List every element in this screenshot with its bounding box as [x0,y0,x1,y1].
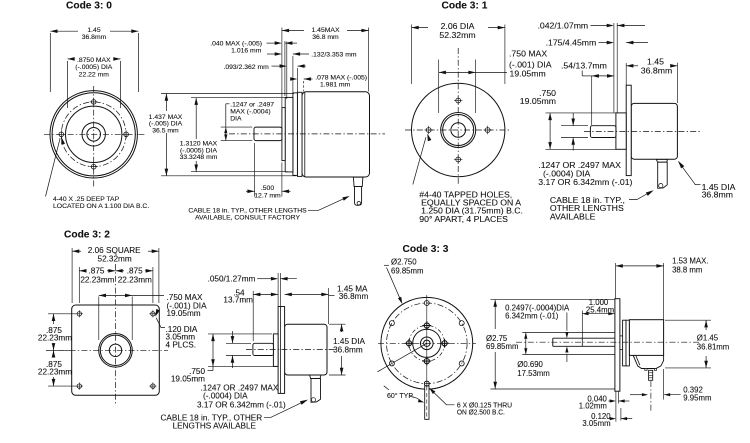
Code 3:3 side view shaft [553,337,615,339]
Code 3:3 front view hub circle [413,329,441,357]
svg-text:1.45MAX: 1.45MAX [312,27,340,34]
Code 3:3 leader 6X holes [431,389,455,405]
svg-text:22.23mm: 22.23mm [118,275,152,284]
svg-text:19.05mm: 19.05mm [171,374,205,383]
Code 3:1 leader tapped holes [413,137,426,184]
svg-text:13.7mm: 13.7mm [223,296,253,305]
Code 3:2 dimension .1247 shaft dia arrows [226,342,251,344]
svg-text:36.8mm: 36.8mm [339,292,369,301]
Code 3:0 mounting hole left [59,132,64,137]
Code 3:2 dimension 1.45 DIA body [329,323,346,325]
Code 3:1 leader 1.45 DIA [695,184,701,186]
Code 3:3 outer holes 6x [424,301,429,306]
Code 3:3 front view outer circle 2.750 dia [381,297,473,389]
Code 3:0 mounting hole right [124,132,129,137]
svg-text:DIA: DIA [230,116,242,123]
Code 3:0 dimension 1.45MAX top [368,28,370,92]
Code 3:2 dimension .875 .875 top [78,267,80,303]
Code 3:1 side view body [631,103,677,159]
svg-text:36.8 mm: 36.8 mm [312,34,339,41]
svg-text:9.95mm: 9.95mm [683,393,711,402]
svg-text:LENGTHS AVAILABLE: LENGTHS AVAILABLE [173,422,257,431]
svg-text:AVAILABLE, CONSULT FACTORY: AVAILABLE, CONSULT FACTORY [195,215,300,222]
svg-text:1.02mm: 1.02mm [579,402,607,411]
Code 3:0 side view cable strain relief [353,177,363,186]
Code 3:2 mounting hole top-left [77,312,81,316]
Code 3:3 dimension 1.45 body dia [665,319,711,321]
svg-text:22.23mm: 22.23mm [38,333,72,342]
Code 3:2 dimension .875 left lower [53,350,55,357]
svg-text:.8750 MAX: .8750 MAX [77,57,111,64]
Code 3:3 dimension 0.392/9.95mm [650,381,652,412]
Code 3:2 side view flange [278,307,285,394]
svg-text:17.53mm: 17.53mm [517,369,550,378]
Code 3:2 dimension .875 left upper [53,314,55,324]
svg-text:.093/2.362 mm: .093/2.362 mm [223,64,269,71]
Code 3:0 side view front ring 3 [293,93,298,175]
Code 3:0 side extension lines front steps [281,28,283,108]
svg-text:19.05mm: 19.05mm [510,68,546,78]
Code 3:0 side view front ring 1 [282,108,285,161]
Code 3:0 dimension 1.437 MAX dia [161,93,294,95]
svg-text:60° TYP.: 60° TYP. [387,392,414,400]
svg-text:Code 3: 3: Code 3: 3 [403,244,449,255]
svg-text:22.23mm: 22.23mm [38,367,72,376]
svg-text:36.8mm: 36.8mm [702,190,733,200]
Code 3:3 side view centerline [516,341,700,343]
svg-text:Code 3: 1: Code 3: 1 [442,1,488,12]
Code 3:0 dimension .8750 MAX dia [67,61,69,108]
Code 3:1 dimension 1.45 body length [625,63,627,85]
Code 3:3 side view hub lines [522,332,615,334]
Code 3:2 dimension 1.45 MAX length [285,293,292,297]
Code 3:0 dimension .132/3.353 [267,53,276,55]
Code 3:2 front view square flange 2.06 [72,305,160,395]
svg-text:33.3248 mm: 33.3248 mm [180,154,218,161]
Code 3:3 dimension 1.53 MAX [615,263,617,299]
Code 3:2 side view cable [311,379,321,403]
Code 3:0 front view inner hub circles [82,123,105,146]
svg-text:19.05mm: 19.05mm [167,309,201,318]
Code 3:3 side view flange [615,299,620,392]
svg-text:.750 MAX: .750 MAX [509,49,547,59]
svg-text:4 PLCS.: 4 PLCS. [166,340,197,349]
Code 3:1 side view cable [658,162,668,188]
svg-text:36.81mm: 36.81mm [697,343,730,352]
Code 3:0 side view front ring 4 [297,92,302,176]
svg-text:.042/1.07mm: .042/1.07mm [537,20,588,30]
Code 3:3 front view centerlines [426,295,428,420]
Code 3:0 leader 4-40 tap [46,138,61,196]
Code 3:3 front view 60 deg radial line [377,343,426,372]
Code 3:3 hub holes 4x [424,323,429,328]
Code 3:3 dimension 0.690 hub dia [525,333,527,355]
svg-text:1.45: 1.45 [87,27,100,34]
svg-text:LOCATED ON A 1.100 DIA B.C.: LOCATED ON A 1.100 DIA B.C. [53,203,149,210]
Code 3:3 extension lines below flange [615,391,617,422]
Code 3:2 front view shaft circle [109,344,121,356]
Code 3:2 dimension .750 MAX boss [98,297,100,341]
svg-text:.050/1.27mm: .050/1.27mm [208,275,256,284]
svg-text:1.016 mm: 1.016 mm [231,47,262,54]
Code 3:1 tapped hole right [485,128,490,133]
svg-text:ON Ø2.500 B.C.: ON Ø2.500 B.C. [457,407,505,416]
Code 3:0 dimension .500 shaft length [254,143,256,197]
svg-text:Ø2.750: Ø2.750 [391,258,417,267]
svg-text:CABLE 18 in. TYP., OTHER LENGT: CABLE 18 in. TYP., OTHER LENGTHS [188,208,307,215]
Code 3:2 leader .120 DIA hole [156,318,165,328]
Code 3:2 cable leader [264,400,306,417]
Code 3:3 side view rings [623,320,626,366]
Code 3:1 dimension .750 MAX boss dia [438,60,440,114]
svg-text:.875: .875 [89,267,105,276]
Code 3:3 front view center circles [421,337,434,350]
Code 3:1 cable leader [629,191,652,200]
svg-text:.875: .875 [127,267,143,276]
Code 3:3 bottom hole over cable [424,381,429,386]
Code 3:2 side view boss [273,334,278,367]
Code 3:3 front view bolt circle 2.500 B.C. [387,303,468,384]
svg-text:1.53 MAX.: 1.53 MAX. [672,256,708,265]
Code 3:1 side view boss [616,113,626,149]
svg-text:.132/3.353 mm: .132/3.353 mm [311,51,357,58]
Code 3:0 side view shaft [254,127,282,141]
Code 3:3 side view body [629,320,663,356]
Code 3:0 side view body [302,92,370,177]
Code 3:0 side view cable [355,187,362,206]
Code 3:3 dimension 2.75 flange dia [491,299,615,301]
Code 3:0 front view housing outer circles 1.45 dia [50,91,137,178]
Code 3:0 dimension 1.3120 MAX dia [191,97,287,99]
svg-text:36.8mm: 36.8mm [641,66,672,76]
Code 3:1 side view cable strain relief [656,159,667,162]
Code 3:3 leader 60 TYP to radial [384,386,389,390]
Code 3:2 front view centerlines [115,264,117,404]
Code 3:0 side view front ring 2 [285,97,293,171]
svg-text:52.32mm: 52.32mm [98,254,132,263]
Code 3:0 dimension 1.45 / 36.8mm [49,33,51,92]
Code 3:2 mounting hole top-right [151,312,155,316]
svg-text:AVAILABLE: AVAILABLE [550,211,596,221]
Code 3:1 front view flange circle 2.06 dia [412,83,505,176]
Code 3:2 side view shaft [253,343,274,355]
Code 3:1 front view boss circles .750 dia [441,113,476,148]
Code 3:3 front cable [425,386,429,420]
Code 3:1 front view shaft circle [451,123,466,138]
svg-text:(-.0004) DIA: (-.0004) DIA [203,392,248,401]
svg-text:3.05mm: 3.05mm [582,419,610,428]
svg-text:Code 3: 2: Code 3: 2 [64,229,110,240]
svg-text:19.05mm: 19.05mm [520,96,556,106]
Code 3:1 tapped hole bottom [456,157,461,162]
svg-text:MAX (-.0004): MAX (-.0004) [230,109,270,116]
svg-text:.175/4.45mm: .175/4.45mm [546,38,597,48]
Code 3:1 tapped hole left [426,128,431,133]
Code 3:1 front view centerlines [457,48,459,186]
Code 3:1 side view shaft [590,126,616,138]
Code 3:1 dimension .1247 shaft dia arrows [561,125,588,127]
svg-text:1.981 mm: 1.981 mm [320,82,351,89]
Code 3:2 front view boss circles [99,334,133,368]
svg-text:Code 3: 0: Code 3: 0 [66,1,112,12]
Code 3:1 boss extension lines [613,23,615,113]
Code 3:2 side view centerline [246,348,336,350]
Code 3:3 side view connector pin [649,370,653,380]
svg-text:38.8 mm: 38.8 mm [672,265,702,274]
Code 3:3 leader 0.2497 [566,313,568,331]
Code 3:2 dimension 2.06 SQUARE [71,248,73,303]
svg-text:90° APART, 4 PLACES: 90° APART, 4 PLACES [419,214,508,224]
Code 3:3 side view tapered base [633,355,663,368]
Code 3:1 side view centerline [584,131,700,133]
Code 3:0 front view centerlines [93,86,95,188]
Code 3:2 left extension lines [48,313,76,315]
Code 3:3 side view hub stub behind flange [620,335,623,337]
Code 3:0 mounting hole top [91,100,96,105]
svg-text:3.17 OR 6.342mm (-.01): 3.17 OR 6.342mm (-.01) [538,177,632,187]
Code 3:3 leader 2.750 [384,264,389,266]
svg-text:(-.0005) DIA: (-.0005) DIA [75,64,112,71]
svg-text:22.22 mm: 22.22 mm [79,71,110,78]
svg-text:.500: .500 [261,185,274,192]
Code 3:2 mounting hole bottom-right [151,384,155,388]
Code 3:1 dimension 2.06 DIA [411,25,413,85]
svg-text:Ø1.45: Ø1.45 [697,333,719,342]
Code 3:2 side view body [285,324,327,375]
Code 3:0 front view .8750 pilot circle [66,106,122,162]
svg-text:69.85mm: 69.85mm [486,342,519,351]
Code 3:2 mounting hole bottom-left [77,384,81,388]
Code 3:0 mounting hole bottom [91,164,96,169]
svg-text:.1247 or .2497: .1247 or .2497 [230,102,274,109]
Code 3:3 front view hub bolt circle [409,326,445,362]
svg-text:22.23mm: 22.23mm [80,275,114,284]
svg-text:36.8mm: 36.8mm [333,346,363,355]
svg-text:.54/13.7mm: .54/13.7mm [561,60,607,70]
Code 3:0 cable leader [308,197,348,211]
Code 3:3 cable centerline [426,387,428,419]
Code 3:0 dimension .078 MAX [291,78,293,80]
Code 3:1 tapped hole top [456,98,461,103]
svg-text:36.8mm: 36.8mm [82,34,107,41]
svg-text:6.342mm (-.01): 6.342mm (-.01) [505,312,559,321]
Code 3:2 side view cable strain relief [310,375,321,379]
svg-text:36.5 mm: 36.5 mm [152,127,179,134]
Code 3:0 front view bolt circle 1.100 B.C. [61,102,126,167]
Code 3:0 side view centerline [229,133,385,135]
svg-text:52.32mm: 52.32mm [439,30,475,40]
svg-text:12.7 mm: 12.7 mm [254,192,281,199]
svg-text:69.85mm: 69.85mm [391,267,424,276]
Code 3:1 side view flange [626,85,631,175]
svg-text:3.17 OR 6.342mm (-.01): 3.17 OR 6.342mm (-.01) [197,400,286,409]
svg-text:Ø0.690: Ø0.690 [517,360,543,369]
Code 3:3 leader 60 TYP [410,396,422,401]
